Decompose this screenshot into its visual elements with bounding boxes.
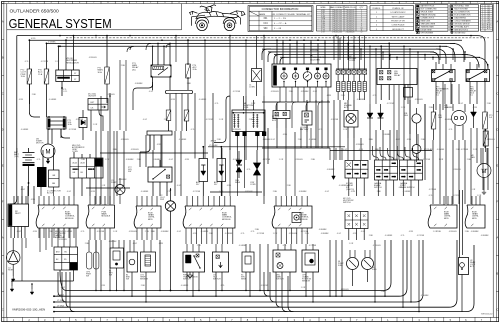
svg-text:4 WH/BK: 4 WH/BK [383,134,392,136]
svg-text:LOCATION BOX: LOCATION BOX [391,11,407,14]
svg-text:6 YL: 6 YL [64,91,68,93]
svg-text:GROUND DEVICE: GROUND DEVICE [454,23,470,25]
svg-text:20 A: 20 A [193,68,198,71]
svg-text:1 OR: 1 OR [439,159,444,161]
svg-text:2 BE: 2 BE [429,107,434,109]
wire MSL [277,244,279,250]
svg-text:6 YL: 6 YL [241,233,245,235]
svg-text:4 GY: 4 GY [361,231,366,233]
svg-text:4 RD/GN: 4 RD/GN [356,144,364,146]
svg-text:REG: REG [404,115,409,117]
svg-text:MODULE: MODULE [299,219,308,221]
wire VR bottom [61,81,63,96]
svg-text:4 RD: 4 RD [473,107,478,109]
connector MC grid [345,212,368,229]
svg-text:4 GN/BK: 4 GN/BK [233,159,241,161]
svg-text:B: B [2,56,4,60]
connector magneto MG [70,158,103,178]
svg-text:MOD: MOD [444,218,449,220]
svg-text:MULTI SYSTEM: MULTI SYSTEM [454,9,468,11]
svg-text:4 RD: 4 RD [159,243,164,245]
svg-text:1 OR: 1 OR [101,185,106,187]
svg-text:4 GN/BK: 4 GN/BK [445,119,453,121]
svg-text:2 BK: 2 BK [141,285,146,287]
wire IA down [236,136,238,150]
svg-text:4 RD: 4 RD [31,38,36,40]
wire PT1 drop [106,36,108,67]
svg-text:WIRE PLUG: WIRE PLUG [345,7,356,9]
fuse PT2 [27,69,32,84]
svg-text:B: B [2,272,4,276]
svg-text:6 YL: 6 YL [449,129,453,131]
wire MC down [348,229,350,241]
fuse F4 [187,40,189,64]
wire MD [347,100,349,111]
wire CPS [88,240,90,252]
wire PCM pins [89,196,91,205]
svg-text:M: M [46,150,51,156]
svg-text:2 BE: 2 BE [145,231,150,233]
svg-text:9: 9 [482,22,483,24]
svg-text:12: 12 [482,28,484,30]
svg-text:1 OR: 1 OR [219,191,224,193]
svg-text:C: C [2,92,4,96]
svg-text:4 GY: 4 GY [21,189,26,191]
wire speedo down fanout [279,87,281,102]
svg-text:4 RD/GN: 4 RD/GN [107,94,115,96]
svg-text:FRAME GROUND: FRAME GROUND [421,14,437,17]
svg-text:4 VT/GN: 4 VT/GN [387,103,395,105]
wire diode packs [202,147,204,159]
sensor box B1 [127,252,138,272]
svg-text:4 RD/GN: 4 RD/GN [295,159,303,161]
svg-text:E: E [497,164,499,168]
svg-text:OUTLET: OUTLET [88,96,97,98]
svg-text:2 BK: 2 BK [377,191,382,193]
svg-text:D: D [496,128,498,132]
svg-text:REGULATOR: REGULATOR [66,61,79,64]
sensor CPS crank [302,250,319,272]
wire PT7 pins [152,182,154,196]
svg-text:4 RD: 4 RD [193,233,198,235]
table abbreviation list [370,6,414,31]
svg-text:4 GY: 4 GY [143,119,148,121]
svg-text:4 WH/BK: 4 WH/BK [471,231,480,233]
motor M starter [41,144,55,158]
svg-text:2 BE: 2 BE [305,233,310,235]
battery BAT [16,148,18,152]
svg-text:SWITCH: SWITCH [343,202,351,204]
sensor J1B [412,114,421,123]
fuse F8 [483,112,488,129]
wire F4 down [187,78,189,90]
svg-text:MODULE: MODULE [222,219,231,221]
svg-text:2 BK: 2 BK [187,83,192,85]
svg-text:4 GN/BK: 4 GN/BK [239,245,247,247]
svg-text:6 YL: 6 YL [63,89,67,91]
wire relay PT6 pins [469,62,471,70]
wire bottom bus 4 LT GN4 [54,306,449,308]
svg-text:OUTLANDER 650/500: OUTLANDER 650/500 [10,9,59,15]
ground 4C [333,160,335,176]
wire speedo collector [262,101,330,103]
svg-text:(C): (C) [470,94,473,96]
svg-text:4 RD/GN: 4 RD/GN [59,239,67,241]
svg-text:2 BK: 2 BK [151,231,156,233]
fuse F7 [431,112,436,129]
wire bottom bus 2 LT GN2 [54,295,399,297]
svg-text:1 OR: 1 OR [401,107,406,109]
svg-text:4 VT/GN: 4 VT/GN [423,159,431,161]
svg-text:3: 3 [482,9,483,11]
svg-text:4 GY: 4 GY [149,91,154,93]
wire MEL ground link [73,270,75,281]
wire IA top [243,96,245,110]
svg-text:C04: C04 [263,23,268,25]
svg-text:4 VT/GN: 4 VT/GN [261,285,269,287]
svg-text:SWITCH: SWITCH [276,278,284,280]
svg-text:CONN: CONN [349,60,355,62]
svg-text:2 BE: 2 BE [311,159,316,161]
svg-text:4 GN/BK: 4 GN/BK [201,231,209,233]
svg-text:2 BE: 2 BE [467,159,472,161]
svg-text:4 WH/BK: 4 WH/BK [421,295,430,297]
svg-text:4 RD: 4 RD [359,149,364,151]
diode D4 [367,113,373,118]
wire PT10 [276,103,278,111]
wire ECM main pins bottom [185,228,187,244]
svg-text:MOD: MOD [472,218,477,220]
svg-text:A: A [497,20,499,24]
svg-text:2 BK: 2 BK [197,245,202,247]
fuse PT1 [105,67,110,84]
svg-text:3 — 68: 3 — 68 [274,28,282,30]
svg-text:2 BK: 2 BK [164,119,169,121]
svg-text:4 WH/BK: 4 WH/BK [327,169,336,171]
wire ECM2 pins [136,196,138,206]
svg-text:4 VT/GN: 4 VT/GN [417,235,425,237]
svg-text:4 WH/BK: 4 WH/BK [153,159,162,161]
switch CTL tilt [213,252,229,272]
svg-text:1 — 2 ... PG: 1 — 2 ... PG [274,18,286,20]
sensor box S5 [242,252,254,272]
svg-text:4 RD/GN: 4 RD/GN [233,129,241,131]
svg-text:4 GY: 4 GY [396,139,401,141]
svg-text:4 WH/BK: 4 WH/BK [119,179,128,181]
wire bus merge curves [130,46,134,50]
svg-text:2 BE: 2 BE [255,229,260,231]
svg-text:4 RD/GN: 4 RD/GN [449,231,457,233]
svg-text:MODULE: MODULE [102,216,111,218]
pump C2 clutch [165,201,175,211]
svg-text:6 YL: 6 YL [373,95,377,97]
wire PT2 down [28,84,30,104]
svg-text:4 GN/BK: 4 GN/BK [179,139,187,141]
sensor box CTS [141,252,156,272]
wire CTL [215,244,217,252]
connector bank G2 [400,160,423,180]
svg-text:2 BE: 2 BE [249,119,254,121]
wire C3 [119,178,121,185]
connector AT [404,88,413,98]
fuse F9 right [483,131,488,146]
ground PWN [189,272,191,275]
wire relay PT5 pins [435,62,437,70]
wire LR [461,275,463,312]
svg-text:4 RD/GN: 4 RD/GN [129,231,137,233]
svg-text:FUEL: FUEL [372,269,377,271]
wire bottom bus 5 [54,311,466,313]
svg-text:SENSOR: SENSOR [140,278,149,280]
svg-text:2 BK: 2 BK [49,231,54,233]
svg-text:4 GN/BK: 4 GN/BK [437,149,445,151]
connector DC small [292,213,301,223]
svg-text:4 RD/GN: 4 RD/GN [453,169,461,171]
wire bank drops [337,36,339,70]
wire bottom drops 3 [374,240,376,302]
svg-text:CONNECTOR X: CONNECTOR X [421,18,435,20]
svg-text:4 RD/GN: 4 RD/GN [89,57,97,59]
svg-text:SYMBOL OF: SYMBOL OF [392,8,404,10]
svg-text:2 BE: 2 BE [85,243,90,245]
svg-text:2 BE: 2 BE [381,291,386,293]
wire battery down [28,166,30,196]
horn C4 [6,251,20,265]
pump C3 [115,185,125,195]
svg-text:1 OR: 1 OR [471,189,476,191]
wire mid bus LT RD-BK [330,150,432,152]
svg-text:12: 12 [361,32,363,34]
svg-text:DIAG WIRING: DIAG WIRING [454,17,466,20]
svg-text:2: 2 [482,7,483,9]
svg-text:4 VT/GN: 4 VT/GN [331,119,339,121]
svg-text:MODULE: MODULE [65,218,74,220]
wire bottom bus 1 [60,240,391,291]
svg-text:4 VT/GN: 4 VT/GN [41,61,49,63]
svg-text:7: 7 [482,18,483,20]
wire nested curves center [264,272,270,296]
wire top bus junction dots [59,35,61,37]
wire solenoid to motor [51,129,53,144]
svg-text:2 BK: 2 BK [298,139,303,141]
svg-text:4 VT/GN: 4 VT/GN [76,119,84,121]
svg-text:CIRCUIT BREAKER: CIRCUIT BREAKER [454,19,471,22]
svg-text:1 OR: 1 OR [433,231,438,233]
diode pack A [199,159,208,182]
svg-text:6 YL: 6 YL [37,159,41,161]
svg-text:DIN CONNECTOR AND TERMINAL KIT: DIN CONNECTOR AND TERMINAL KIT [271,13,311,16]
connector bank G1 [375,160,398,180]
svg-text:BATTERY: BATTERY [300,128,309,131]
svg-text:SENS: SENS [235,182,241,184]
svg-text:15 A: 15 A [38,73,43,76]
svg-text:4 RD: 4 RD [185,159,190,161]
wire relay PT3 drops [152,46,154,65]
connector battery cable [37,167,47,187]
svg-text:1 OR: 1 OR [93,124,98,126]
svg-text:4 WH/BK: 4 WH/BK [126,159,135,161]
svg-text:4 GY: 4 GY [343,149,348,151]
svg-text:E: E [2,164,4,168]
svg-text:1 OR: 1 OR [279,159,284,161]
svg-text:4 RD/GN: 4 RD/GN [289,233,297,235]
svg-text:4 VT/GN: 4 VT/GN [69,129,77,131]
svg-text:6 YL: 6 YL [81,231,85,233]
svg-text:6 YL: 6 YL [251,231,255,233]
svg-text:30 A: 30 A [68,123,73,126]
wire ECM E pins [471,196,473,205]
wire relay S-curve left [133,82,153,110]
svg-text:6 YL: 6 YL [401,235,405,237]
wire left drops to modules [21,186,23,204]
svg-text:4 RD/GN: 4 RD/GN [373,245,381,247]
svg-text:CONN: CONN [249,86,255,88]
svg-text:6 YL: 6 YL [25,61,29,63]
svg-text:4 GN/BK: 4 GN/BK [181,285,189,287]
relay fan J2B [377,69,417,85]
svg-text:4 GY: 4 GY [133,243,138,245]
wire banks down [377,180,379,196]
svg-text:4 RD: 4 RD [409,231,414,233]
svg-text:1 OR: 1 OR [343,129,348,131]
svg-text:4 VT/GN: 4 VT/GN [97,231,105,233]
svg-text:D: D [2,128,4,132]
ground bottom left 2 [31,284,33,289]
svg-text:4 VT/GN: 4 VT/GN [206,119,214,121]
svg-text:LT GN4: LT GN4 [57,305,65,307]
svg-text:4 GY: 4 GY [67,191,72,193]
connector battery holder [302,111,312,125]
wire top bus 3 [47,42,456,44]
injector circle 2 [362,258,374,270]
svg-text:2 BK: 2 BK [375,149,380,151]
svg-text:(Y-B): (Y-B) [14,156,19,158]
wire CTS [143,240,145,252]
wire solenoid right [60,129,62,138]
wire extra top drops [175,36,177,62]
wire top bus 2 [29,39,462,41]
svg-text:4 GN/BK: 4 GN/BK [225,233,233,235]
svg-text:4 RD: 4 RD [353,233,358,235]
wire CB up [53,148,55,170]
wire horn [12,238,14,251]
svg-text:6 YL: 6 YL [399,187,403,189]
svg-text:5: 5 [482,14,483,16]
wire bottom drops [95,240,97,291]
wire top bus 4 [60,45,447,47]
svg-text:4 RD/GN: 4 RD/GN [245,191,253,193]
wire left module drops [21,238,23,252]
svg-text:6: 6 [482,16,483,18]
svg-text:MOTOR: MOTOR [36,143,44,145]
connector bank DLC [336,70,340,74]
svg-text:4 GY: 4 GY [177,185,182,187]
diode D6 [471,112,477,117]
diode D1 [79,118,87,128]
spark plug terminals [235,132,239,137]
svg-text:DC CONNECTION: DC CONNECTION [454,12,470,14]
svg-text:4 RD: 4 RD [33,231,38,233]
module ECM engine [272,206,312,228]
wire top bus 5 [262,48,440,50]
svg-text:6 YL: 6 YL [221,285,225,287]
svg-text:4 WH/BK: 4 WH/BK [299,191,308,193]
wire bottom bus 3 LT GN3 [54,301,415,303]
wire hook curves above banks [372,146,378,160]
svg-text:4 RD: 4 RD [327,95,332,97]
svg-text:4 RD/GN: 4 RD/GN [131,149,139,151]
module ECM rear [36,205,78,228]
svg-text:SW: SW [128,171,131,173]
svg-text:4 VT/GN: 4 VT/GN [461,149,469,151]
ground fan motor [483,190,485,192]
wire mid bus 4 [262,147,330,149]
svg-text:4 GY: 4 GY [337,233,342,235]
svg-text:4 WH/BK: 4 WH/BK [319,229,328,231]
motor M fan [477,164,491,178]
ignition coil circle [452,111,467,126]
wire bus elbow right [477,36,485,64]
svg-text:A: A [497,236,499,240]
wire ECM rear pins [38,196,40,205]
svg-text:FRONT OF VH: FRONT OF VH [391,21,405,23]
svg-text:4 RD/GN: 4 RD/GN [121,139,129,141]
solenoid LR [459,258,469,275]
wire top bus 8 [280,56,480,58]
fuse PT0 [44,69,49,84]
svg-text:6 YL: 6 YL [247,169,251,171]
svg-text:4 VT/GN: 4 VT/GN [309,245,317,247]
svg-text:4 RD: 4 RD [157,144,162,146]
svg-text:4 RD: 4 RD [101,285,106,287]
svg-text:RECT: RECT [15,213,21,215]
svg-text:4 VT/GN: 4 VT/GN [453,195,461,197]
injector circle 1 [347,258,359,270]
svg-text:VMR2006-002-100_AEN: VMR2006-002-100_AEN [12,308,45,312]
svg-text:4 WH/BK: 4 WH/BK [321,233,330,235]
wire 4C down [348,178,350,196]
svg-text:4 RD: 4 RD [91,191,96,193]
module ECM D [428,205,457,228]
solenoid SOL [47,117,66,129]
svg-text:2 BE: 2 BE [273,191,278,193]
svg-text:4 GY: 4 GY [325,191,330,193]
diode bowtie C2W [254,163,261,169]
svg-text:4 VT/GN: 4 VT/GN [263,159,271,161]
module ECM main [183,206,235,228]
svg-text:MAIN CONNECT: MAIN CONNECT [330,6,345,9]
ground horn [12,276,14,279]
svg-text:SW: SW [109,274,112,276]
wire speedo drops [276,40,278,64]
svg-text:2 BK: 2 BK [421,139,426,141]
svg-text:(30): (30) [132,69,136,71]
legend symbols column 2 [450,5,479,32]
svg-text:WIRE: WIRE [321,7,327,9]
svg-text:6 YL: 6 YL [283,245,287,247]
wire PWN [186,244,188,252]
svg-text:HOT AT ALL TIME: HOT AT ALL TIME [454,5,469,8]
svg-text:1 OR: 1 OR [251,103,256,105]
wire bus elbow left [262,49,271,60]
wire fuses down [168,121,170,132]
svg-text:2 BE: 2 BE [81,159,86,161]
svg-text:6 YL: 6 YL [429,195,433,197]
wire top bus 7 [274,54,468,56]
svg-text:LT RD-BK: LT RD-BK [424,149,433,151]
svg-text:2 BE: 2 BE [369,139,374,141]
switch PWN transmission [183,252,205,272]
